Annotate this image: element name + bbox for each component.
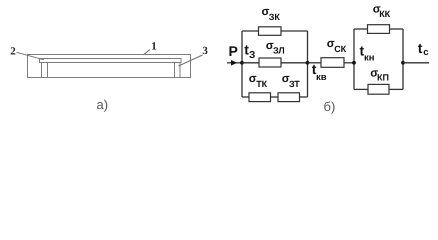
svg-text:2: 2 [10, 46, 16, 58]
callout 2 [10, 46, 44, 60]
resistor σтк [249, 93, 271, 102]
right support 3 [175, 63, 181, 78]
callout 1 [144, 40, 157, 55]
svg-text:ТК: ТК [256, 79, 267, 89]
value label σкк [373, 4, 391, 19]
wire top branch 2 left [354, 28, 368, 30]
resistor σск [321, 58, 344, 68]
svg-text:ЗТ: ЗТ [289, 79, 300, 89]
caption a) [97, 97, 109, 112]
svg-text:ЗЛ: ЗЛ [273, 46, 285, 56]
left support 2 [42, 63, 48, 78]
value label σзт [282, 73, 300, 89]
junction dot t_c [401, 61, 405, 65]
value label σск [327, 38, 347, 54]
svg-text:t: t [418, 40, 423, 56]
resistor σзк [259, 27, 282, 36]
node label t_kn [360, 43, 375, 64]
wire top branch 1 [242, 30, 259, 32]
svg-text:кн: кн [364, 53, 375, 64]
resistor σкп [368, 84, 389, 94]
svg-text:З: З [249, 50, 255, 61]
node label t_c [418, 40, 429, 58]
wire between σтк σзт [271, 96, 279, 98]
arrow P [231, 60, 237, 66]
wire mid branch right [281, 62, 308, 64]
svg-text:кв: кв [316, 72, 327, 83]
callout 3 [179, 45, 209, 66]
wire top branch 1 right [281, 30, 308, 32]
value label σкп [370, 68, 389, 83]
svg-text:с: с [423, 47, 428, 58]
plate 1 (board) [40, 59, 182, 63]
svg-text:3: 3 [202, 45, 208, 57]
svg-text:КП: КП [377, 73, 389, 83]
wire bottom branch 2 right [389, 88, 403, 90]
resistor σзт [278, 93, 300, 102]
caption b) [324, 99, 336, 114]
bus 3 (node t_kn) [353, 29, 355, 89]
resistor σзл [259, 58, 281, 67]
wire top branch 2 right [390, 28, 404, 30]
wire input P [227, 62, 242, 64]
junction dot t_kv [306, 61, 310, 65]
junction dot t_z [240, 61, 244, 65]
svg-text:а): а) [97, 97, 109, 112]
value label σзк [262, 6, 281, 22]
node label t_kv [312, 61, 327, 83]
value label σзл [266, 40, 285, 56]
svg-text:б): б) [324, 99, 336, 114]
svg-text:КК: КК [379, 9, 390, 19]
resistor σкк [368, 25, 390, 34]
junction dot t_kn [352, 61, 356, 65]
wire mid branch left [242, 62, 259, 64]
bus 1 (node t_z) [241, 31, 243, 97]
value label σтк [249, 73, 268, 89]
svg-text:СК: СК [334, 44, 346, 54]
bus 2 (node t_kv) [307, 31, 309, 97]
svg-text:1: 1 [151, 40, 157, 52]
wire bottom branch right [300, 96, 308, 98]
wire σск to t_kn [344, 62, 354, 64]
case outline (part a) [28, 55, 191, 78]
bus 4 (node t_c) [402, 29, 404, 89]
svg-text:P: P [229, 43, 238, 59]
wire bottom branch left [242, 96, 249, 98]
wire output t_c [403, 62, 429, 64]
wire to σск [308, 62, 322, 64]
svg-text:ЗК: ЗК [269, 12, 281, 22]
wire bottom branch 2 left [354, 88, 368, 90]
node label t_z [244, 41, 255, 61]
node label P [229, 43, 238, 59]
